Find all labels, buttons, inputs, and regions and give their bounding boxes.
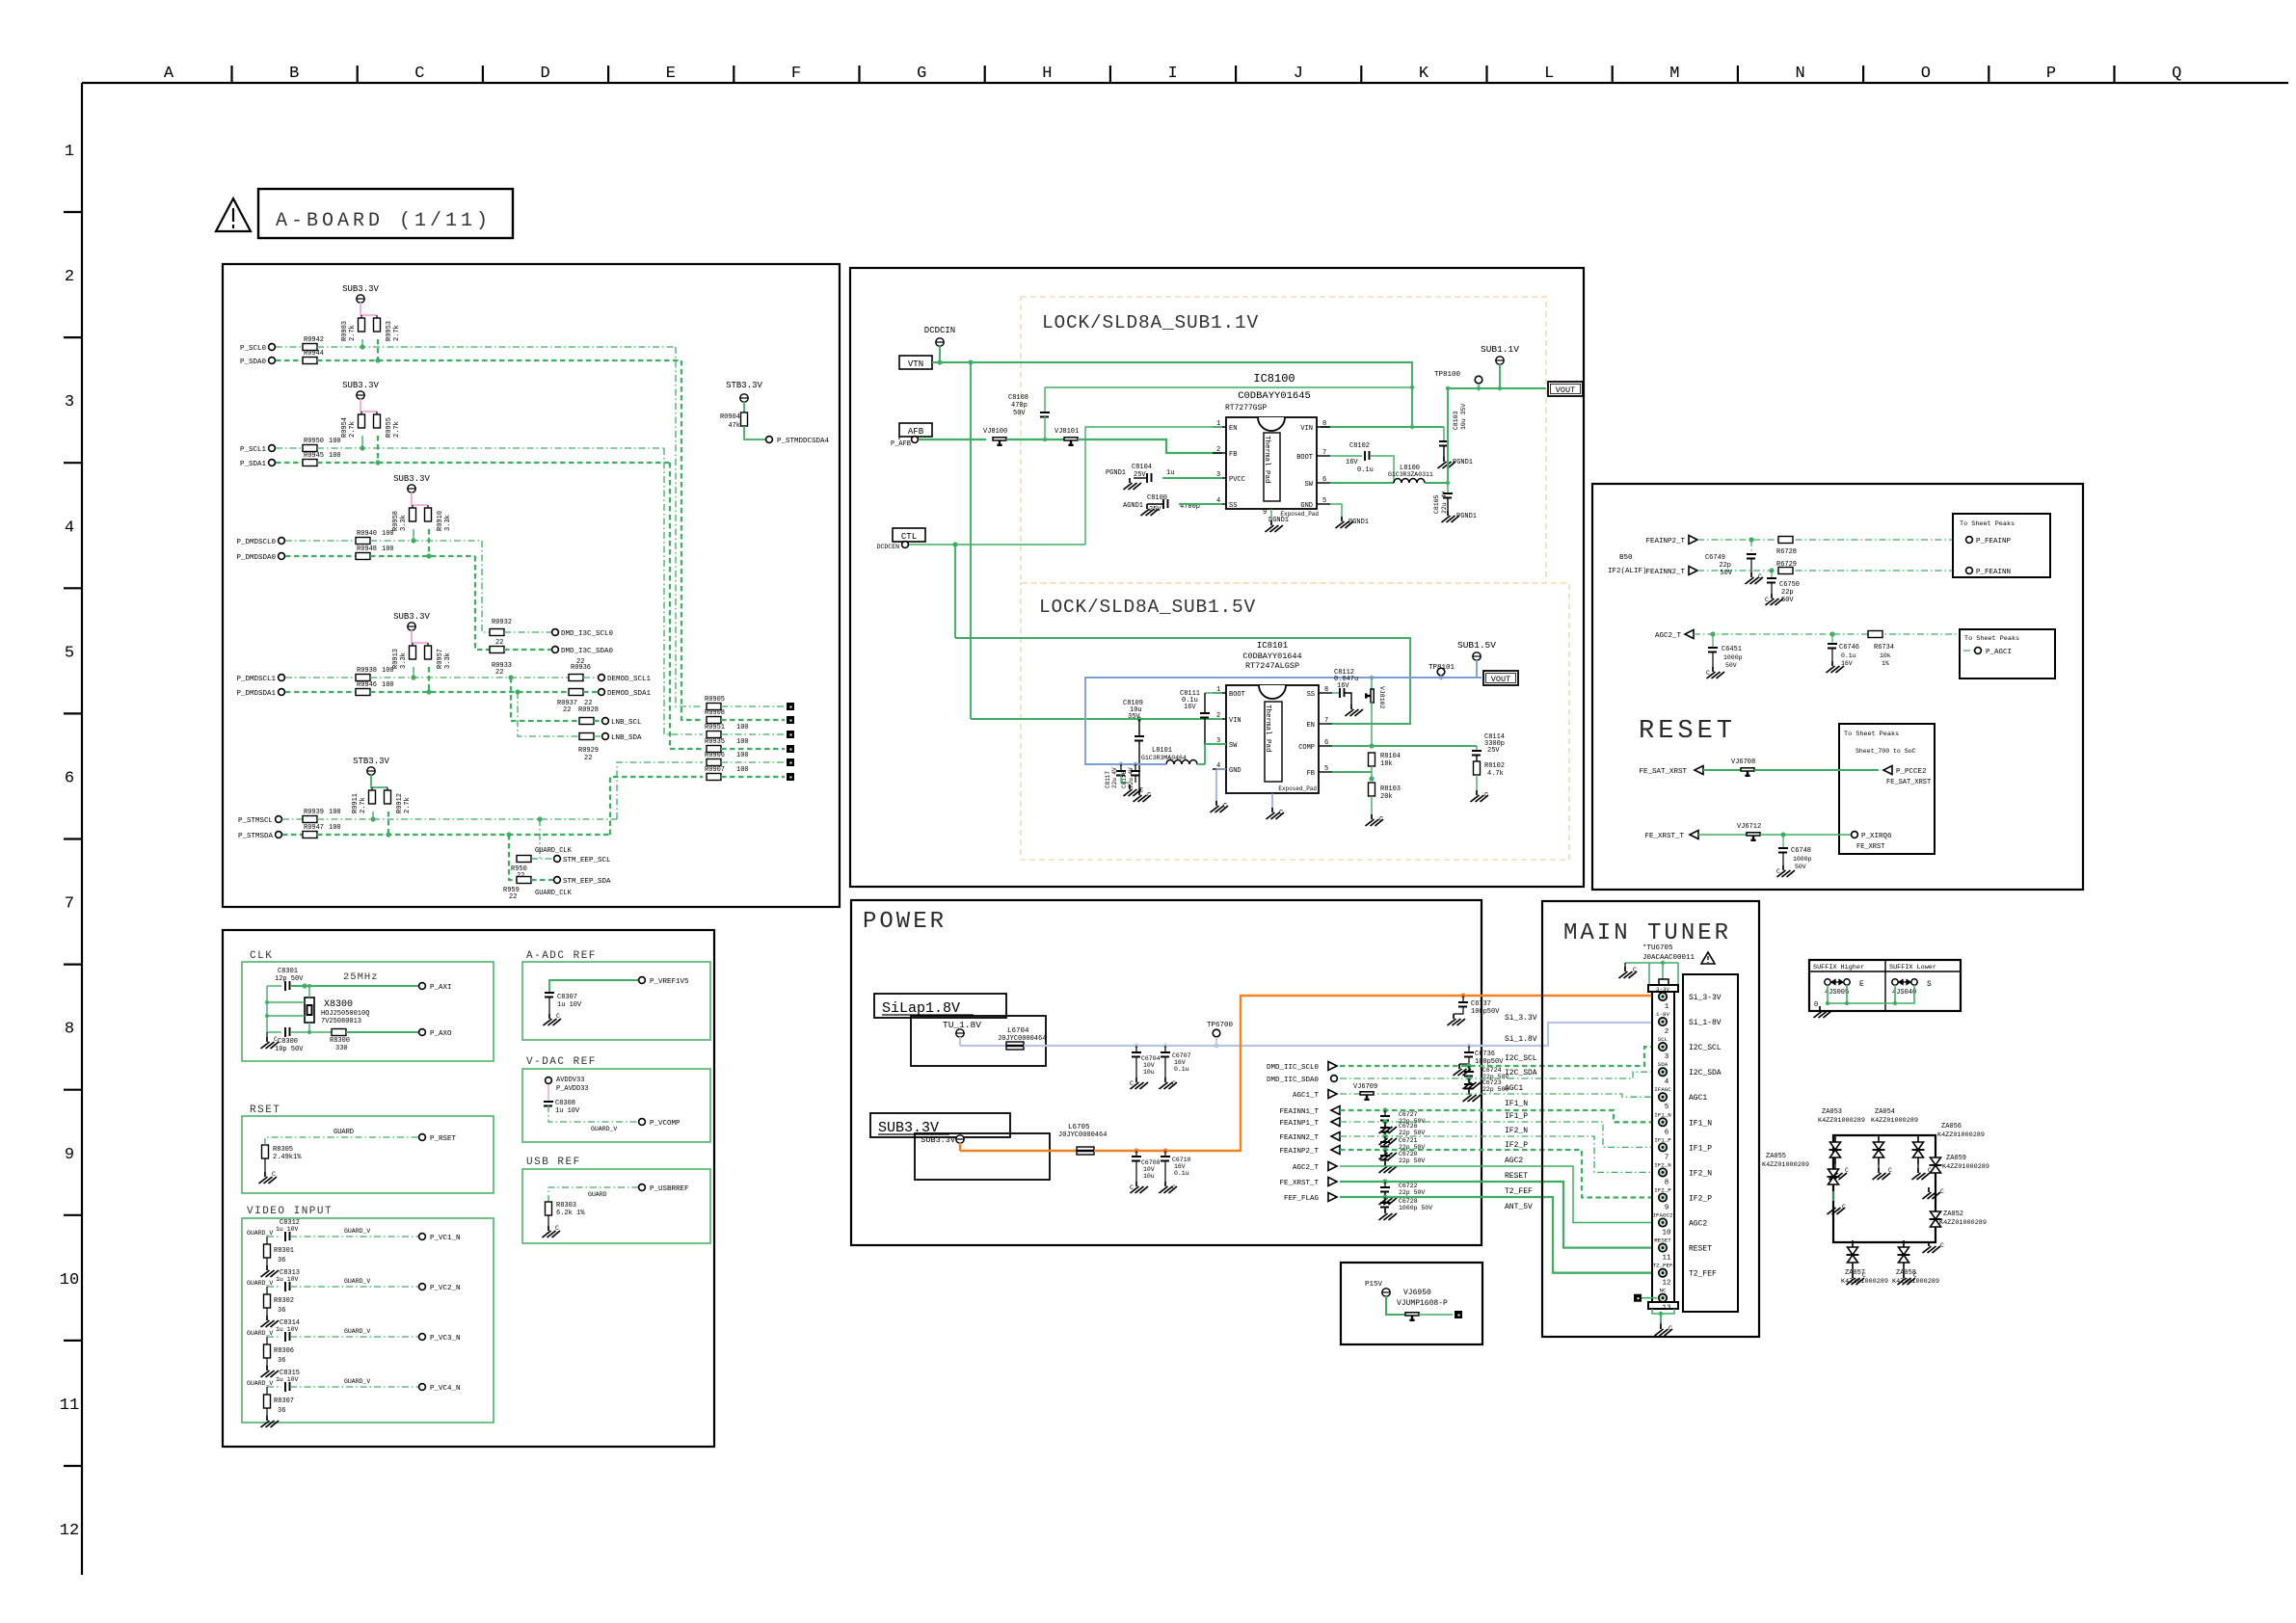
svg-text:P_AXO: P_AXO [430, 1030, 452, 1038]
net label SUB3.3V [870, 1113, 1010, 1137]
wire AGC1_T [1340, 1094, 1659, 1097]
svg-text:C6749: C6749 [1705, 554, 1725, 562]
pin 7 IF1_P [1659, 1143, 1667, 1151]
resistor R0939 100 [282, 818, 303, 820]
svg-text:GUARD_V: GUARD_V [247, 1380, 273, 1387]
svg-text:2.7k: 2.7k [393, 421, 401, 438]
svg-text:IF2_P: IF2_P [1654, 1187, 1671, 1194]
wire AGC2_T [1340, 1166, 1659, 1223]
svg-text:VTN: VTN [908, 359, 923, 369]
svg-text:C8117: C8117 [1105, 771, 1111, 788]
svg-text:R8103: R8103 [1380, 785, 1401, 793]
svg-text:IF2_N: IF2_N [1505, 1127, 1528, 1135]
svg-text:SCL: SCL [1658, 1036, 1669, 1043]
svg-text:R0935: R0935 [705, 738, 725, 746]
svg-text:C: C [414, 65, 424, 83]
svg-text:C: C [1130, 1184, 1134, 1191]
svg-text:R0946: R0946 [357, 681, 377, 689]
ground [261, 1265, 280, 1277]
terminal R0907 [787, 773, 794, 781]
svg-text:FE_SAT_XRST: FE_SAT_XRST [1886, 779, 1931, 786]
svg-text:P_USBRREF: P_USBRREF [650, 1185, 689, 1193]
svg-text:22: 22 [509, 893, 517, 901]
svg-text:C8104: C8104 [1132, 464, 1152, 471]
svg-text:2: 2 [65, 268, 74, 286]
svg-text:RT7277GSP: RT7277GSP [1225, 404, 1267, 412]
svg-text:Q: Q [2172, 65, 2181, 83]
svg-text:1000p 50V: 1000p 50V [1399, 1205, 1432, 1211]
svg-text:R0945: R0945 [304, 452, 324, 460]
svg-text:VIDEO INPUT: VIDEO INPUT [247, 1206, 333, 1217]
svg-text:DEMOD_SCL1: DEMOD_SCL1 [607, 676, 652, 683]
svg-text:3.3k: 3.3k [400, 652, 408, 669]
pin 1 3-3V [1659, 993, 1667, 1000]
wire GUARD_V dashed [290, 1236, 418, 1237]
wire SDA0 vertical route [681, 360, 703, 720]
svg-text:SS: SS [1307, 691, 1315, 699]
svg-text:BOOT: BOOT [1296, 454, 1313, 462]
resistor R0951 100 [707, 732, 721, 738]
jumper VJ8101 [1064, 438, 1078, 445]
jumper VJ6708 [1703, 769, 1741, 771]
resistor R8306 36 [266, 1337, 268, 1344]
svg-text:ZA055: ZA055 [1766, 1153, 1786, 1160]
svg-text:P_DMDSDA0: P_DMDSDA0 [236, 554, 276, 562]
resistor R0911 2.7k [369, 790, 376, 804]
net label AFB [899, 423, 932, 437]
wire VIN net [971, 718, 1222, 720]
svg-text:IFAGC2: IFAGC2 [1653, 1212, 1673, 1219]
ground [1160, 1078, 1178, 1089]
wire STMSCL route [617, 762, 703, 819]
svg-text:P_PCCE2: P_PCCE2 [1896, 768, 1927, 776]
svg-text:To Sheet Peaks: To Sheet Peaks [1964, 635, 2019, 643]
svg-text:FB: FB [1229, 451, 1237, 459]
resistor R0950 100 [276, 447, 303, 449]
wire crystal left links [266, 986, 268, 1032]
svg-text:VJ6950: VJ6950 [1403, 1289, 1431, 1297]
wire EN net from CTL [955, 638, 1410, 724]
svg-text:C8103: C8103 [1453, 411, 1459, 430]
svg-text:1u 10V: 1u 10V [276, 1276, 299, 1283]
svg-text:3.3k: 3.3k [444, 515, 452, 531]
svg-text:Thermal Pad: Thermal Pad [1264, 705, 1271, 753]
svg-text:3.3k: 3.3k [444, 652, 452, 669]
svg-text:IF1_N: IF1_N [1689, 1119, 1712, 1128]
svg-text:100: 100 [736, 738, 749, 746]
svg-text:R0944: R0944 [304, 350, 324, 358]
svg-text:VJ6712: VJ6712 [1737, 823, 1761, 831]
port P_AGCI [1975, 648, 1982, 654]
svg-text:R0942: R0942 [304, 336, 324, 344]
svg-text:Si_1.8V: Si_1.8V [1505, 1035, 1537, 1044]
port LNB_SCL [602, 718, 609, 725]
svg-text:I2C_SCL: I2C_SCL [1689, 1044, 1722, 1052]
svg-text:FEAINP2_T: FEAINP2_T [1645, 538, 1685, 545]
svg-text:GUARD_CLK: GUARD_CLK [535, 847, 573, 855]
svg-text:6: 6 [1324, 739, 1328, 747]
svg-text:100: 100 [382, 545, 394, 553]
svg-text:16V: 16V [1184, 704, 1196, 711]
wire STM_EEP_SDA [509, 835, 517, 880]
svg-text:AVDDV33: AVDDV33 [556, 1077, 584, 1084]
svg-text:SUFFIX Lower: SUFFIX Lower [1889, 964, 1936, 971]
svg-text:22p: 22p [1719, 562, 1731, 570]
svg-text:47k: 47k [728, 422, 740, 430]
svg-text:10p 50V: 10p 50V [275, 1046, 304, 1053]
svg-text:P_DMDSCL0: P_DMDSCL0 [236, 539, 276, 546]
svg-text:C: C [556, 1013, 560, 1020]
svg-text:K4ZZ01000289: K4ZZ01000289 [1871, 1117, 1918, 1125]
wire AFB line [919, 439, 986, 440]
wire CTL vertical to EN 1.5V [954, 545, 956, 638]
svg-text:3-3V: 3-3V [1656, 986, 1669, 993]
svg-text:SUB3.3V: SUB3.3V [393, 474, 430, 484]
wire P_DMDSDA1 net [370, 691, 569, 693]
resistor R950 22 [517, 856, 531, 863]
net label SiLap1.8V [874, 994, 1006, 1018]
svg-text:C: C [1940, 1188, 1944, 1195]
wire P_STMSCL net [317, 818, 617, 820]
zener diode ZA058 K4ZZ01000289 [1898, 1240, 1910, 1269]
svg-text:FE_XRST: FE_XRST [1856, 843, 1884, 851]
svg-text:GUARD: GUARD [334, 1129, 354, 1136]
diode ring bus [1833, 1135, 1936, 1242]
svg-text:C: C [1130, 1080, 1134, 1087]
svg-text:K: K [1419, 65, 1429, 83]
svg-text:R0911: R0911 [352, 793, 360, 813]
svg-text:P_FEAINP: P_FEAINP [1976, 538, 2012, 545]
svg-text:VJ6709: VJ6709 [1353, 1083, 1377, 1091]
pin 9 IF2_P [1659, 1193, 1667, 1201]
resistor R8301 36 [266, 1237, 268, 1244]
ground C [1366, 814, 1384, 826]
svg-text:C8102: C8102 [1349, 442, 1370, 450]
svg-text:100p50V: 100p50V [1475, 1058, 1504, 1066]
pin 3 SCL [1659, 1043, 1667, 1051]
svg-text:P_STMSCL: P_STMSCL [238, 817, 274, 825]
svg-text:9: 9 [1263, 509, 1267, 517]
port DMD_I3C_SDA0 [552, 647, 559, 653]
resistor R0948 100 [285, 555, 356, 557]
svg-text:22: 22 [584, 700, 592, 707]
svg-text:GUARD_V: GUARD_V [344, 1378, 370, 1385]
svg-text:IF2_P: IF2_P [1505, 1141, 1528, 1150]
row tick marks [64, 211, 82, 213]
svg-text:C6748: C6748 [1791, 847, 1811, 855]
front-end section box [1592, 484, 2083, 890]
svg-text:R0905: R0905 [705, 696, 725, 704]
svg-text:1u 10V: 1u 10V [276, 1376, 299, 1383]
resistor R0940 100 [285, 540, 356, 542]
svg-text:C6451: C6451 [1722, 646, 1742, 653]
port P_RSET [419, 1134, 426, 1141]
svg-text:12: 12 [1662, 1280, 1670, 1288]
svg-text:GUARD_V: GUARD_V [247, 1280, 273, 1287]
capacitor C6707 16V 0.1u [1164, 1046, 1166, 1052]
svg-text:R0913: R0913 [392, 649, 400, 669]
resistor R0928 22 [579, 718, 594, 725]
ground [1346, 705, 1364, 716]
terminal R0935 [787, 745, 794, 753]
svg-text:P_VC2_N: P_VC2_N [430, 1285, 461, 1292]
svg-text:P_DMDSCL1: P_DMDSCL1 [236, 676, 276, 683]
svg-text:R0948: R0948 [357, 545, 377, 553]
svg-text:R0928: R0928 [578, 706, 599, 714]
svg-text:C6736: C6736 [1475, 1051, 1495, 1058]
svg-text:2.7k: 2.7k [404, 797, 412, 813]
svg-text:7: 7 [1322, 449, 1326, 457]
port P_VC2_N [419, 1284, 426, 1290]
svg-text:C: C [1913, 1272, 1917, 1279]
tuner pin-name table [1683, 974, 1738, 1312]
svg-text:C: C [1147, 792, 1151, 800]
box To Sheet Peaks Sheet_700 to SoC [1839, 724, 1935, 854]
svg-text:I: I [1167, 65, 1177, 83]
wire AGC2 [1694, 633, 1960, 635]
MAIN TUNER section box [1542, 901, 1759, 1337]
wire SUB3.3V to pullups [412, 630, 428, 643]
resistor R6728 [1778, 537, 1793, 544]
svg-text:C: C [1888, 1167, 1892, 1174]
jumper VJ6712 [1698, 834, 1747, 836]
svg-text:LOCK/SLD8A_SUB1.1V: LOCK/SLD8A_SUB1.1V [1042, 312, 1259, 333]
svg-text:VJ8102: VJ8102 [1378, 686, 1385, 709]
svg-text:VJ8101: VJ8101 [1055, 428, 1079, 436]
svg-text:MAIN TUNER: MAIN TUNER [1563, 920, 1731, 946]
resistor R0953 2.7k [374, 318, 381, 332]
port P_FEAINN [1966, 568, 1973, 574]
I2C pull-up section box [223, 264, 840, 907]
svg-text:PGND1: PGND1 [1453, 459, 1473, 466]
port P_VCOMP [639, 1119, 646, 1126]
svg-text:6: 6 [65, 770, 74, 788]
capacitor C8307 1u 10V [549, 980, 638, 993]
svg-text:8: 8 [1324, 686, 1328, 694]
svg-text:Si_1-8V: Si_1-8V [1689, 1019, 1722, 1027]
net label CTL [893, 528, 925, 542]
svg-text:C8300: C8300 [278, 1038, 298, 1046]
pin 1 BOOT [1213, 692, 1226, 694]
svg-text:P_VC1_N: P_VC1_N [430, 1235, 461, 1242]
svg-text:1000p: 1000p [1723, 654, 1743, 661]
zener diode ZA057 K4ZZ01000289 [1847, 1240, 1859, 1269]
svg-text:22: 22 [495, 669, 503, 677]
svg-text:50V: 50V [1795, 864, 1806, 870]
svg-text:R0954: R0954 [341, 417, 349, 438]
capacitor C6710 16V 0.1u [1164, 1151, 1166, 1157]
svg-text:I2C_SDA: I2C_SDA [1505, 1069, 1537, 1078]
resistor R0912 2.7k [385, 790, 391, 804]
wire P_SDA1 net [317, 462, 670, 464]
svg-text:C6720: C6720 [1399, 1151, 1418, 1157]
svg-text:10V: 10V [1143, 1062, 1155, 1069]
svg-text:RESET: RESET [1654, 1237, 1671, 1244]
pin 5 IFAGC [1659, 1093, 1667, 1101]
svg-text:VOUT: VOUT [1491, 675, 1510, 684]
svg-text:GUARD: GUARD [588, 1191, 607, 1198]
resistor R0945 100 [276, 462, 303, 464]
resistor R8303 6.2k 1% [546, 1202, 552, 1215]
svg-text:2.7k: 2.7k [349, 421, 357, 438]
svg-text:IF1_P: IF1_P [1505, 1112, 1528, 1121]
svg-text:TP6700: TP6700 [1207, 1022, 1234, 1029]
pin 1 EN [1213, 426, 1226, 428]
svg-text:C: C [1379, 816, 1383, 824]
pin 3 SW [1213, 743, 1226, 745]
jumper 4JS040 S [1892, 979, 1898, 985]
ground PGND1 [1442, 511, 1460, 522]
SUFFIX jumper table [1809, 960, 1961, 1011]
svg-text:PVCC: PVCC [1229, 476, 1245, 484]
pin 5 FB [1319, 771, 1332, 773]
svg-text:P: P [2046, 65, 2056, 83]
svg-text:Exposed_Pad: Exposed_Pad [1278, 785, 1317, 792]
svg-text:7V25080013: 7V25080013 [321, 1018, 361, 1025]
svg-text:A: A [164, 65, 174, 83]
svg-text:SUB1.5V: SUB1.5V [1457, 640, 1496, 651]
svg-text:LNB_SDA: LNB_SDA [611, 734, 642, 742]
resistor R6729 [1778, 568, 1793, 574]
ground [1160, 1182, 1178, 1193]
svg-text:SUB3.3V: SUB3.3V [921, 1135, 956, 1145]
svg-text:R0908: R0908 [705, 709, 725, 717]
svg-text:COMP: COMP [1298, 744, 1315, 752]
svg-text:IF1_P: IF1_P [1689, 1144, 1712, 1153]
svg-text:C6710: C6710 [1172, 1157, 1191, 1163]
svg-text:7: 7 [1324, 717, 1328, 725]
svg-text:RSET: RSET [250, 1104, 280, 1116]
svg-text:IF1_N: IF1_N [1505, 1100, 1528, 1108]
svg-text:20k: 20k [1380, 793, 1393, 801]
svg-text:TP8100: TP8100 [1434, 371, 1461, 379]
svg-text:C: C [1758, 573, 1762, 580]
svg-text:R0958: R0958 [392, 511, 400, 531]
port DEMOD_SCL1 [599, 675, 605, 681]
svg-text:P15V: P15V [1365, 1281, 1383, 1289]
svg-text:R8303: R8303 [556, 1202, 576, 1210]
svg-text:ZA059: ZA059 [1946, 1155, 1966, 1162]
svg-text:IF1_P: IF1_P [1654, 1136, 1671, 1143]
pin 7 EN [1319, 723, 1332, 725]
svg-text:Si_3-3V: Si_3-3V [1689, 994, 1722, 1002]
pin 4 GND [1213, 768, 1226, 770]
svg-text:P_AFB: P_AFB [891, 440, 911, 448]
svg-text:1u 10V: 1u 10V [555, 1107, 580, 1115]
resistor R8305 2.49k1% [262, 1145, 269, 1158]
svg-text:5: 5 [65, 644, 74, 662]
svg-text:1u 10V: 1u 10V [276, 1226, 299, 1233]
svg-text:C8308: C8308 [555, 1100, 575, 1107]
svg-text:AGC2_T: AGC2_T [1293, 1164, 1320, 1172]
capacitor C6728 1000p 50V [1382, 1194, 1387, 1199]
svg-text:FE_SAT_XRST: FE_SAT_XRST [1639, 768, 1687, 776]
resistor R8307 36 [266, 1387, 268, 1395]
ground C [1471, 790, 1489, 802]
resistor R0907 100 [707, 774, 721, 781]
wire VIN top link [1045, 386, 1412, 388]
resistor R0958 3.3k [410, 508, 416, 521]
svg-text:C: C [555, 1225, 559, 1232]
svg-text:1-8V: 1-8V [1656, 1011, 1669, 1018]
svg-text:DMD_I3C_SCL0: DMD_I3C_SCL0 [561, 630, 614, 638]
svg-text:P_STMDDCSDA4: P_STMDDCSDA4 [777, 438, 830, 445]
capacitor C6737 100p50V [1462, 996, 1464, 1002]
svg-text:C: C [1706, 670, 1710, 677]
svg-text:FB: FB [1307, 770, 1315, 778]
svg-text:C: C [1862, 1272, 1866, 1279]
svg-text:IF2(ALIF): IF2(ALIF) [1608, 568, 1647, 575]
svg-text:POWER: POWER [863, 909, 947, 935]
svg-text:6: 6 [1322, 476, 1326, 484]
svg-text:C: C [274, 1036, 278, 1043]
svg-text:IFAGC: IFAGC [1654, 1086, 1671, 1093]
svg-text:36: 36 [278, 1257, 285, 1264]
svg-text:22p 50V: 22p 50V [1399, 1189, 1425, 1196]
svg-text:R6728: R6728 [1776, 548, 1797, 556]
svg-text:P_SDA1: P_SDA1 [240, 461, 267, 468]
svg-text:P_AGCI: P_AGCI [1986, 649, 2012, 656]
svg-text:8: 8 [1665, 1179, 1669, 1186]
svg-text:R8305: R8305 [273, 1146, 293, 1154]
svg-text:R0912: R0912 [396, 793, 404, 813]
wire FEAINN2_T [1340, 1136, 1659, 1172]
svg-text:50V: 50V [1013, 410, 1026, 417]
port P_VC1_N [419, 1234, 426, 1240]
svg-text:IC8101: IC8101 [1257, 641, 1288, 651]
svg-text:C6721: C6721 [1399, 1137, 1418, 1144]
svg-text:GUARD_V: GUARD_V [247, 1230, 273, 1237]
terminal R0908 [787, 716, 794, 724]
wire DMD_IIC_SDA0 [1340, 1072, 1659, 1078]
wire FEF_FLAG [1340, 1197, 1659, 1273]
svg-text:R8302: R8302 [274, 1297, 294, 1305]
svg-text:PGND1: PGND1 [1348, 519, 1369, 526]
svg-text:100: 100 [736, 724, 749, 732]
pin 4 SS [1213, 503, 1226, 505]
resistor R0947 100 [282, 834, 303, 836]
svg-text:10u: 10u [1143, 1173, 1155, 1180]
warning triangle [1701, 952, 1715, 964]
POWER section box [851, 900, 1482, 1245]
ground C [1211, 801, 1229, 812]
wire DMD_IIC_SCL0 [1340, 1047, 1659, 1066]
wire P_SDA0 net [317, 359, 681, 361]
svg-text:1u 10V: 1u 10V [276, 1326, 299, 1333]
column tick marks [230, 66, 232, 83]
port P_VREF1V5 [639, 977, 646, 984]
pin 8 VIN [1317, 426, 1330, 428]
resistor R959 22 [517, 877, 531, 884]
svg-text:FEAINN2_T: FEAINN2_T [1645, 569, 1685, 576]
port P_VC3_N [419, 1334, 426, 1341]
ground C [1134, 790, 1152, 802]
svg-text:22: 22 [584, 755, 592, 762]
wire SCL0 vertical route [676, 347, 703, 706]
svg-text:1%: 1% [1882, 660, 1889, 667]
svg-text:R0950: R0950 [304, 438, 324, 445]
wire FEAINP2_T [1340, 1150, 1659, 1198]
svg-text:K4ZZ01000289: K4ZZ01000289 [1937, 1131, 1985, 1139]
svg-text:VJ6708: VJ6708 [1731, 758, 1755, 766]
svg-text:3: 3 [65, 393, 74, 412]
svg-text:9: 9 [1665, 1205, 1669, 1212]
svg-text:I2C_SDA: I2C_SDA [1689, 1069, 1722, 1078]
svg-text:Thermal Pad: Thermal Pad [1263, 436, 1270, 484]
svg-text:ZA056: ZA056 [1941, 1123, 1962, 1131]
resistor R0937 22 [569, 689, 583, 696]
svg-text:L: L [1544, 65, 1554, 83]
